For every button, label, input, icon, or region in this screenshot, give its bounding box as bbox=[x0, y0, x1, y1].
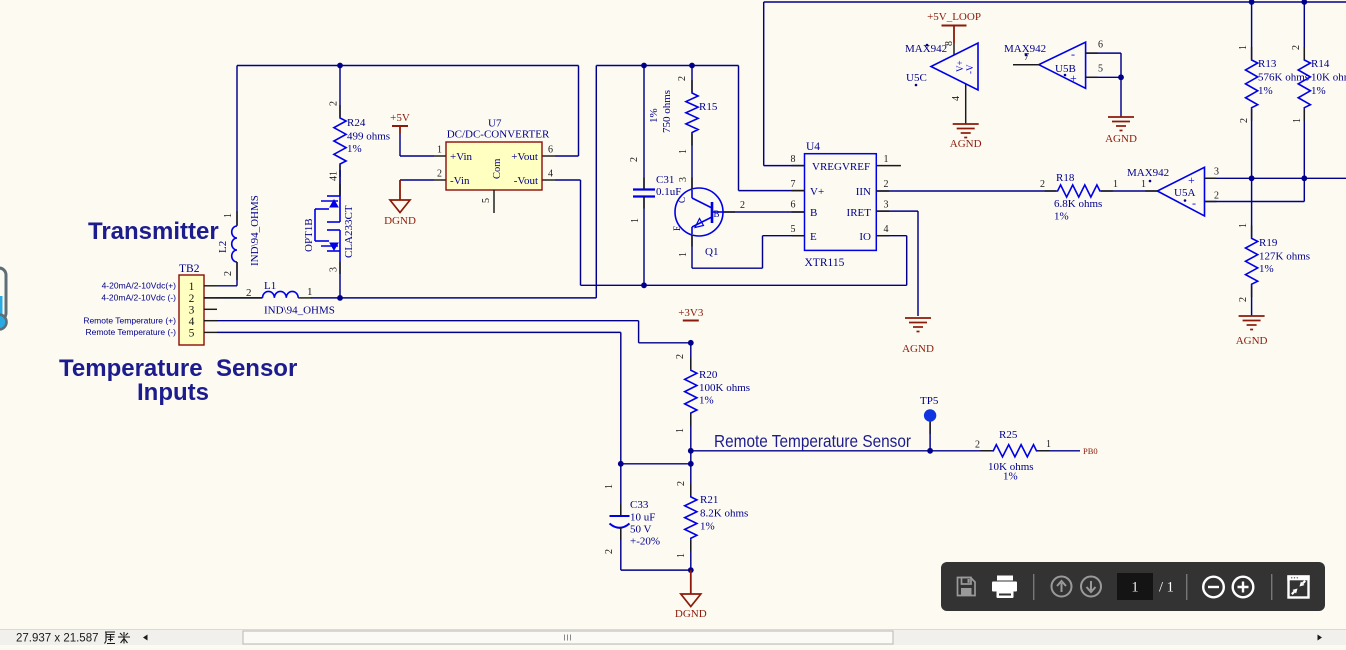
glyph li (CJK) bbox=[105, 632, 116, 644]
svg-text:2: 2 bbox=[975, 440, 980, 451]
wire: U5B output stub bbox=[1013, 64, 1039, 66]
svg-text:10K ohms: 10K ohms bbox=[1311, 72, 1346, 84]
svg-text:10 uF: 10 uF bbox=[630, 512, 655, 524]
svg-text:-Vout: -Vout bbox=[514, 175, 538, 187]
svg-text:3: 3 bbox=[884, 200, 889, 211]
ground AGND U5B bbox=[1108, 116, 1134, 118]
svg-text:B: B bbox=[810, 207, 817, 219]
svg-text:2: 2 bbox=[675, 354, 686, 359]
ground AGND R19 bbox=[1239, 315, 1265, 317]
thermometer icon bbox=[0, 268, 7, 330]
resistor R20 bbox=[685, 369, 697, 414]
svg-text:1%: 1% bbox=[699, 395, 714, 407]
svg-text:E: E bbox=[672, 225, 682, 231]
wire: U4 IRET pin3 to AGND bbox=[876, 210, 918, 212]
svg-text:2: 2 bbox=[677, 76, 688, 81]
svg-text:R25: R25 bbox=[999, 429, 1018, 441]
terminal block TB2 bbox=[179, 275, 204, 345]
svg-text:C33: C33 bbox=[630, 499, 649, 511]
svg-text:L2: L2 bbox=[217, 241, 229, 253]
svg-text:7: 7 bbox=[791, 179, 796, 190]
ground AGND U4 bbox=[905, 317, 931, 319]
wire: top rail y=2 to R13/R14 bbox=[764, 1, 1346, 3]
svg-text:41: 41 bbox=[329, 171, 340, 181]
node: junction OPT1B on L1 net bbox=[337, 295, 343, 301]
svg-text:1: 1 bbox=[678, 149, 689, 154]
wire: sensor net horizontal bbox=[691, 450, 993, 452]
wire: C33 column bbox=[620, 464, 622, 516]
svg-text:IIN: IIN bbox=[856, 186, 871, 198]
svg-text:5: 5 bbox=[189, 328, 195, 340]
svg-text:1: 1 bbox=[1113, 179, 1118, 190]
resistor R24 bbox=[334, 117, 346, 165]
svg-text:Remote Temperature Sensor: Remote Temperature Sensor bbox=[714, 431, 911, 451]
node: junction +3V3 bbox=[688, 340, 694, 346]
svg-text:R24: R24 bbox=[347, 117, 366, 129]
wire: right top rail (V+ net over C31/R15) bbox=[596, 65, 738, 67]
ground DGND bottom bbox=[690, 570, 692, 594]
svg-text:E: E bbox=[810, 231, 817, 243]
wire: node rail y=178.3 to right edge bbox=[1252, 177, 1346, 179]
svg-text:127K ohms: 127K ohms bbox=[1259, 251, 1310, 263]
svg-text:V+: V+ bbox=[810, 186, 824, 198]
resistor R25 bbox=[992, 445, 1037, 457]
svg-text:5: 5 bbox=[1098, 64, 1103, 75]
svg-text:C: C bbox=[677, 197, 687, 203]
svg-text:4: 4 bbox=[884, 224, 889, 235]
svg-text:VREGVREF: VREGVREF bbox=[812, 161, 870, 173]
power +3V3 bbox=[683, 320, 699, 322]
wire: R13 column bbox=[1251, 2, 1253, 59]
op-amp U5C bbox=[931, 43, 978, 90]
svg-text:4-20mA/2-10Vdc (-): 4-20mA/2-10Vdc (-) bbox=[101, 293, 176, 303]
node: junction R24 on top rail bbox=[337, 63, 343, 69]
svg-text:+Vout: +Vout bbox=[511, 151, 538, 163]
wire: R15 to Q1 collector bbox=[691, 134, 693, 190]
svg-text:+: + bbox=[1188, 173, 1195, 187]
svg-text:1: 1 bbox=[1292, 118, 1303, 123]
glyph mi (CJK) bbox=[118, 632, 130, 644]
node: junction C31 top bbox=[641, 63, 647, 69]
wire: Q1 base to U4 pin B bbox=[723, 211, 805, 213]
svg-text:L1: L1 bbox=[264, 280, 276, 292]
resistor R15 bbox=[686, 92, 698, 134]
svg-text:+5V_LOOP: +5V_LOOP bbox=[927, 11, 981, 23]
wire: +3V3 column to R20 bbox=[690, 343, 692, 369]
separator bbox=[1271, 574, 1272, 600]
icon page up bbox=[1052, 577, 1072, 597]
node: junction DGND bbox=[688, 567, 694, 573]
wire: IO rail y=285.3 bbox=[581, 284, 907, 286]
svg-text:-: - bbox=[1071, 47, 1075, 61]
svg-text:R13: R13 bbox=[1258, 58, 1277, 70]
svg-text:DC/DC-CONVERTER: DC/DC-CONVERTER bbox=[447, 129, 550, 141]
svg-text:1%: 1% bbox=[347, 143, 362, 155]
icon zoom in bbox=[1233, 577, 1254, 598]
svg-text:6: 6 bbox=[791, 200, 796, 211]
node: junction U5B pin5 bbox=[1118, 74, 1124, 80]
svg-text:1: 1 bbox=[223, 213, 234, 218]
svg-text:4: 4 bbox=[548, 169, 553, 180]
ground DGND U7 bbox=[390, 200, 410, 213]
svg-text:2: 2 bbox=[329, 101, 340, 106]
svg-text:R21: R21 bbox=[700, 494, 718, 506]
wire: Q1 emitter to U4 pin E bbox=[691, 235, 693, 269]
svg-text:100K ohms: 100K ohms bbox=[699, 382, 750, 394]
resistor R19 bbox=[1246, 237, 1258, 285]
svg-text:R19: R19 bbox=[1259, 237, 1278, 249]
separator bbox=[1186, 574, 1187, 600]
svg-text:IND\94_OHMS: IND\94_OHMS bbox=[264, 305, 335, 317]
svg-text:1: 1 bbox=[675, 428, 686, 433]
svg-text:6: 6 bbox=[548, 145, 553, 156]
wire: U5A pin3 to R13 node bbox=[1205, 177, 1252, 179]
svg-text:R15: R15 bbox=[699, 101, 718, 113]
svg-text:Inputs: Inputs bbox=[137, 379, 209, 406]
wire: R14 column bbox=[1303, 2, 1305, 59]
node: junction C33 horizontal bbox=[688, 461, 694, 467]
pin leads (black) bbox=[643, 178, 645, 190]
svg-text:2: 2 bbox=[1239, 118, 1250, 123]
wire: L1 net coil to jog bbox=[311, 297, 596, 299]
wire: U7 -Vout pin4 stub bbox=[542, 179, 555, 181]
svg-text:3: 3 bbox=[189, 304, 195, 316]
transistor Q1 bbox=[675, 188, 723, 236]
svg-text:AGND: AGND bbox=[950, 138, 982, 150]
svg-text:AGND: AGND bbox=[1105, 133, 1137, 145]
svg-text:4: 4 bbox=[189, 316, 195, 328]
svg-text:8: 8 bbox=[944, 41, 955, 46]
svg-text:TB2: TB2 bbox=[179, 263, 200, 275]
svg-text:2: 2 bbox=[740, 200, 745, 211]
svg-text:Remote Temperature (-): Remote Temperature (-) bbox=[85, 327, 176, 337]
wire: R20 bottom through sensor node bbox=[690, 414, 692, 496]
wire: R21 bottom to DGND node bbox=[690, 539, 692, 570]
svg-text:Q1: Q1 bbox=[705, 246, 718, 258]
svg-text:3: 3 bbox=[1214, 167, 1219, 178]
capacitor C33 bbox=[610, 515, 630, 517]
svg-text:DGND: DGND bbox=[675, 608, 707, 620]
svg-text:PB0: PB0 bbox=[1083, 446, 1098, 456]
svg-text:1%: 1% bbox=[648, 108, 660, 123]
wire: R18 to U5A output bbox=[1101, 190, 1157, 192]
svg-text:Remote Temperature (+): Remote Temperature (+) bbox=[83, 316, 176, 326]
svg-text:+-20%: +-20% bbox=[630, 536, 660, 548]
scroll left arrow bbox=[143, 635, 148, 641]
op-amp U4 XTR115 bbox=[805, 154, 877, 251]
converter U7 bbox=[446, 142, 542, 190]
svg-text:4-20mA/2-10Vdc(+): 4-20mA/2-10Vdc(+) bbox=[102, 281, 177, 291]
wire: OPT1B to L1 net bbox=[339, 262, 341, 298]
wire: U4 VREF pin1 stub bbox=[876, 165, 901, 167]
wire: vertical x=596.3 top rail down to L1 net bbox=[595, 66, 597, 298]
svg-text:B: B bbox=[714, 209, 720, 219]
svg-text:750 ohms: 750 ohms bbox=[661, 90, 673, 133]
wire: U5C pin8 stem bbox=[953, 26, 955, 44]
node: junction R13 column y=178.3 bbox=[1249, 175, 1255, 181]
svg-text:7: 7 bbox=[1024, 52, 1029, 63]
svg-text:IRET: IRET bbox=[847, 207, 872, 219]
svg-text:0.1uF: 0.1uF bbox=[656, 186, 681, 198]
svg-text:MAX942: MAX942 bbox=[1127, 167, 1169, 179]
power +5V bbox=[392, 125, 408, 127]
svg-text:1: 1 bbox=[1141, 179, 1146, 190]
svg-text:+Vin: +Vin bbox=[450, 151, 473, 163]
svg-text:CLA233CT: CLA233CT bbox=[343, 205, 355, 258]
svg-text:IND\94_OHMS: IND\94_OHMS bbox=[249, 195, 261, 266]
svg-text:2: 2 bbox=[676, 481, 687, 486]
transistor OPT1B CLA233CT bbox=[339, 170, 341, 196]
wire: TP5 stem bbox=[929, 422, 931, 451]
svg-text:2: 2 bbox=[884, 179, 889, 190]
test point TP5 bbox=[924, 409, 936, 421]
svg-text:DGND: DGND bbox=[384, 215, 416, 227]
node: junction R15 top bbox=[689, 63, 695, 69]
svg-text:1: 1 bbox=[1238, 223, 1249, 228]
svg-text:C31: C31 bbox=[656, 174, 674, 186]
ground AGND U5C bbox=[953, 123, 979, 125]
wire: R24/OPT1B column top bbox=[339, 66, 341, 118]
U4 pin stubs bbox=[792, 165, 805, 167]
svg-text:2: 2 bbox=[1291, 45, 1302, 50]
svg-text:4: 4 bbox=[951, 96, 962, 101]
svg-text:1: 1 bbox=[604, 484, 615, 489]
svg-text:V+: V+ bbox=[955, 60, 965, 72]
svg-text:1: 1 bbox=[1046, 439, 1051, 450]
wire: L2 column upper bbox=[236, 66, 238, 226]
svg-text:8.2K ohms: 8.2K ohms bbox=[700, 508, 748, 520]
svg-text:1: 1 bbox=[884, 154, 889, 165]
inductor L2 bbox=[232, 226, 237, 262]
wire: TB2 pin4 net to +3V3 node bbox=[217, 320, 639, 322]
status bar bbox=[0, 629, 1346, 645]
wire: left top rail (+Vout net) bbox=[237, 65, 579, 67]
icon fit view bbox=[1287, 575, 1309, 597]
wire: C33 bottom horizontal bbox=[621, 569, 691, 571]
svg-text:2: 2 bbox=[1214, 191, 1219, 202]
wire: L1 net TB2 pin2 to coil bbox=[217, 297, 263, 299]
svg-text:1%: 1% bbox=[1311, 85, 1326, 97]
wire: TB2 pin5 net to C33 node bbox=[217, 331, 621, 333]
svg-text:-V: -V bbox=[965, 64, 975, 74]
svg-text:8: 8 bbox=[791, 154, 796, 165]
svg-text:1: 1 bbox=[437, 145, 442, 156]
icon zoom out bbox=[1203, 577, 1224, 598]
page number box bbox=[1117, 573, 1153, 600]
svg-text:2: 2 bbox=[223, 271, 234, 276]
svg-text:2: 2 bbox=[1040, 179, 1045, 190]
wire: IIN net U4 pin2 to R18 bbox=[876, 190, 1056, 192]
svg-text:+: + bbox=[1070, 71, 1077, 85]
svg-text:2: 2 bbox=[1238, 297, 1249, 302]
svg-text:5: 5 bbox=[481, 198, 492, 203]
svg-text:Com: Com bbox=[492, 159, 503, 179]
svg-text:TP5: TP5 bbox=[920, 395, 939, 407]
icon print bbox=[992, 576, 1017, 599]
wire: R25 to PB0 bbox=[1038, 450, 1081, 452]
svg-text:Transmitter: Transmitter bbox=[88, 218, 219, 245]
svg-text:+5V: +5V bbox=[390, 112, 410, 124]
svg-text:1%: 1% bbox=[1054, 211, 1069, 223]
node: junction R14 top bbox=[1301, 0, 1307, 5]
svg-text:2: 2 bbox=[437, 169, 442, 180]
capacitor C31 bbox=[633, 188, 655, 190]
wire: U7 -Vin from DGND bbox=[400, 179, 434, 181]
designator dots bbox=[926, 44, 929, 47]
svg-text:2: 2 bbox=[604, 549, 615, 554]
node: junction C31 bottom on IO rail bbox=[641, 282, 647, 288]
wire: R15 column top bbox=[691, 66, 693, 93]
svg-text:AGND: AGND bbox=[902, 343, 934, 355]
svg-text:AGND: AGND bbox=[1236, 335, 1268, 347]
inductor L1 bbox=[263, 291, 299, 298]
op-amp U5B bbox=[1039, 42, 1086, 88]
svg-text:1%: 1% bbox=[1259, 263, 1274, 275]
wire: -Vout vertical x=580.5 bbox=[555, 179, 581, 181]
svg-text:OPT1B: OPT1B bbox=[303, 218, 315, 252]
svg-text:50 V: 50 V bbox=[630, 524, 652, 536]
svg-text:-: - bbox=[1192, 196, 1196, 210]
wire: U5A pin2 jog bbox=[1205, 201, 1305, 203]
svg-text:499 ohms: 499 ohms bbox=[347, 131, 390, 143]
wire: U4 VREG pin8 vertical to top rail bbox=[763, 2, 765, 166]
svg-text:27.937 x 21.587: 27.937 x 21.587 bbox=[16, 633, 99, 645]
svg-text:1: 1 bbox=[678, 252, 689, 257]
svg-text:IO: IO bbox=[859, 231, 871, 243]
svg-text:3: 3 bbox=[329, 267, 340, 272]
svg-text:XTR115: XTR115 bbox=[805, 257, 845, 269]
wire: U4 IO pin4 to rail bbox=[876, 235, 906, 237]
wire: R24 to OPT1B bbox=[339, 165, 341, 196]
node: junction C33 top bbox=[618, 461, 624, 467]
svg-text:+3V3: +3V3 bbox=[678, 307, 704, 319]
power +5V_LOOP bbox=[942, 25, 967, 27]
svg-text:1%: 1% bbox=[1258, 85, 1273, 97]
scroll thumb bbox=[243, 631, 893, 644]
icon page down bbox=[1081, 577, 1101, 597]
svg-text:R18: R18 bbox=[1056, 172, 1075, 184]
node: junction R13 top bbox=[1249, 0, 1255, 5]
op-amp U5A bbox=[1157, 167, 1204, 216]
wire: U5C pin4 stem bbox=[965, 84, 967, 124]
svg-text:3: 3 bbox=[678, 177, 689, 182]
svg-text:1: 1 bbox=[1238, 45, 1249, 50]
svg-text:1: 1 bbox=[676, 553, 687, 558]
toolbar bbox=[941, 562, 1325, 611]
wire: U7 +Vout pin6 stub bbox=[542, 155, 555, 157]
wire: U5B feedback pin6-pin5 bbox=[1086, 52, 1121, 54]
wire: C31 column bbox=[643, 66, 645, 190]
svg-text:2: 2 bbox=[189, 293, 195, 305]
svg-text:-Vin: -Vin bbox=[450, 175, 470, 187]
wire: U4 V+ pin7 bbox=[738, 66, 740, 191]
svg-text:R14: R14 bbox=[1311, 58, 1330, 70]
svg-text:2: 2 bbox=[629, 157, 640, 162]
wire: U7 +Vin from +5V bbox=[399, 126, 401, 134]
svg-text:6: 6 bbox=[1098, 40, 1103, 51]
wire: L2 column lower to TB2 pin1 bbox=[236, 262, 238, 286]
svg-text:1%: 1% bbox=[700, 521, 715, 533]
svg-text:U5C: U5C bbox=[906, 72, 927, 84]
icon save floppy bbox=[958, 578, 976, 596]
node: junction TP5 bbox=[927, 448, 933, 454]
svg-text:1: 1 bbox=[1131, 580, 1138, 596]
separator bbox=[1033, 574, 1034, 600]
svg-text:1: 1 bbox=[307, 286, 313, 298]
svg-text:R20: R20 bbox=[699, 369, 718, 381]
wire: C33 node horizontal bbox=[621, 463, 691, 465]
node: junction R14 column y=178.3 bbox=[1301, 175, 1307, 181]
resistor R18 bbox=[1057, 185, 1101, 197]
resistor R21 bbox=[685, 496, 697, 539]
svg-text:1: 1 bbox=[189, 281, 195, 293]
resistor R14 bbox=[1298, 59, 1310, 109]
svg-text:5: 5 bbox=[791, 224, 796, 235]
wire: +Vout vertical x=578.5 bbox=[578, 66, 580, 157]
wire: U5B pin5 node to AGND bbox=[1120, 77, 1122, 117]
resistor R13 bbox=[1246, 59, 1258, 109]
scroll right arrow bbox=[1318, 635, 1323, 641]
svg-text:1%: 1% bbox=[1003, 471, 1018, 483]
svg-text:U4: U4 bbox=[806, 141, 820, 153]
wire: R19 bottom to AGND bbox=[1251, 285, 1253, 316]
svg-text:1: 1 bbox=[630, 218, 641, 223]
svg-text:/ 1: / 1 bbox=[1159, 580, 1174, 596]
svg-text:6.8K ohms: 6.8K ohms bbox=[1054, 198, 1102, 210]
node: junction sensor net bbox=[688, 448, 694, 454]
svg-text:Temperature Sensor: Temperature Sensor bbox=[59, 355, 297, 382]
